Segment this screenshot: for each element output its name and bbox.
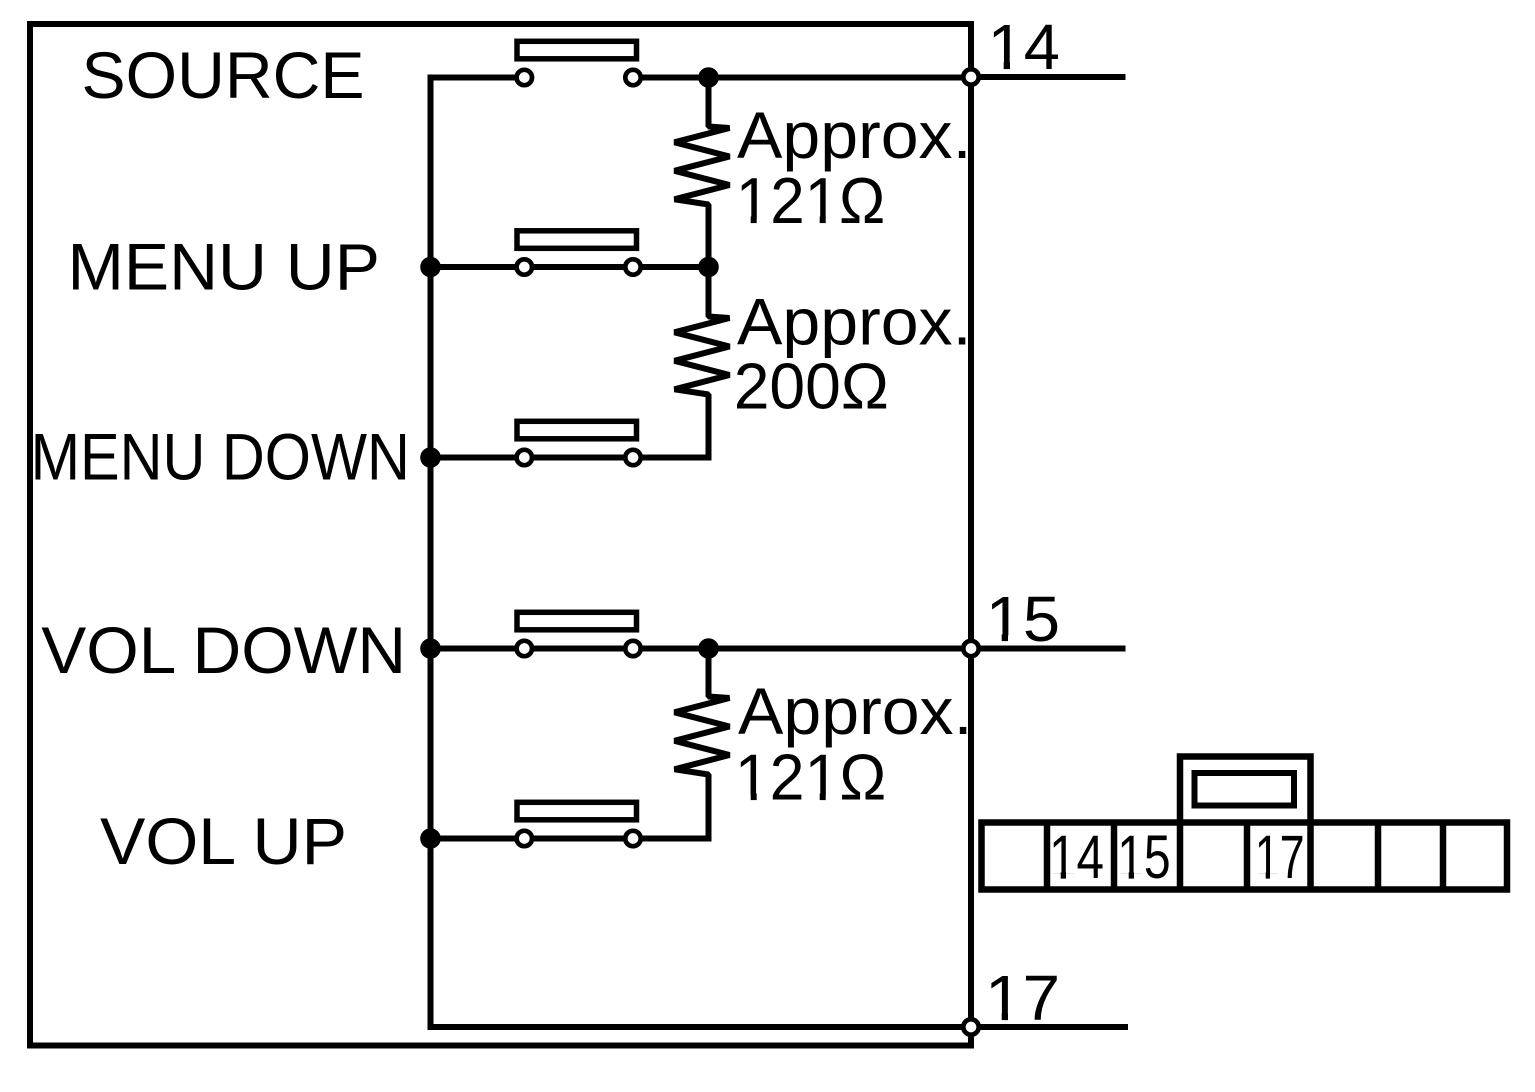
svg-text:Approx.: Approx.: [738, 674, 973, 748]
svg-text:Approx.: Approx.: [737, 285, 972, 359]
pin 15 terminal circle: [963, 641, 978, 656]
junction dot node VOL DOWN/R3: [698, 638, 719, 659]
wire: pin 14 external lead: [971, 74, 1126, 80]
svg-text:15: 15: [986, 583, 1061, 655]
connector lock tab: [1180, 757, 1311, 826]
switch SW4 VOL DOWN: [517, 612, 641, 656]
wire: pin 17 external lead: [971, 1024, 1128, 1030]
resistor R2 Approx. 200 ohm: [675, 267, 730, 397]
resistor R3 Approx. 121 ohm: [675, 649, 730, 778]
junction dot node MENU UP/R1/R2: [698, 257, 719, 278]
wire: SOURCE row right segment to pin 14: [633, 75, 971, 81]
svg-text:121Ω: 121Ω: [736, 164, 886, 237]
wire: MENU DOWN row and riser to R2: [431, 394, 709, 458]
svg-text:MENU DOWN: MENU DOWN: [31, 420, 410, 494]
svg-text:17: 17: [985, 962, 1060, 1034]
switch SW3 MENU DOWN: [517, 421, 641, 465]
junction dot node VOL DOWN bus: [420, 638, 441, 659]
junction dot node VOL UP bus: [420, 828, 441, 849]
svg-text:14: 14: [988, 11, 1060, 83]
resistor R1 Approx. 121 ohm: [675, 78, 730, 268]
svg-text:200Ω: 200Ω: [734, 350, 889, 423]
svg-text:MENU UP: MENU UP: [68, 229, 380, 303]
wire: VOL UP row and riser to R3: [431, 774, 709, 839]
svg-text:SOURCE: SOURCE: [82, 38, 365, 112]
wire: pin 15 external lead: [971, 646, 1126, 652]
svg-text:17: 17: [1255, 823, 1305, 892]
switch SW1 SOURCE: [517, 41, 641, 85]
pin 17 terminal circle: [963, 1019, 978, 1034]
svg-text:VOL DOWN: VOL DOWN: [41, 613, 406, 687]
connector lock tab inner window: [1195, 773, 1295, 806]
connector body: [982, 823, 1508, 890]
junction dot node MENU DOWN bus: [420, 447, 441, 468]
wire: left bus vertical and bottom run to pin 17: [431, 78, 972, 1028]
unit outline box: [30, 24, 971, 1046]
switch SW5 VOL UP: [517, 802, 641, 846]
wire: SOURCE row left segment: [428, 75, 525, 81]
pin 14 terminal circle: [963, 69, 978, 84]
junction dot node MENU UP bus: [420, 257, 441, 278]
svg-text:14: 14: [1049, 823, 1104, 892]
svg-text:VOL UP: VOL UP: [100, 804, 347, 878]
svg-text:121Ω: 121Ω: [735, 741, 887, 814]
wire: VOL DOWN row to pin 15: [431, 646, 972, 652]
svg-text:15: 15: [1117, 823, 1171, 892]
wire: MENU UP row: [431, 264, 709, 270]
switch SW2 MENU UP: [517, 231, 641, 275]
svg-text:Approx.: Approx.: [737, 98, 972, 172]
junction dot node SOURCE/R1: [698, 67, 719, 88]
